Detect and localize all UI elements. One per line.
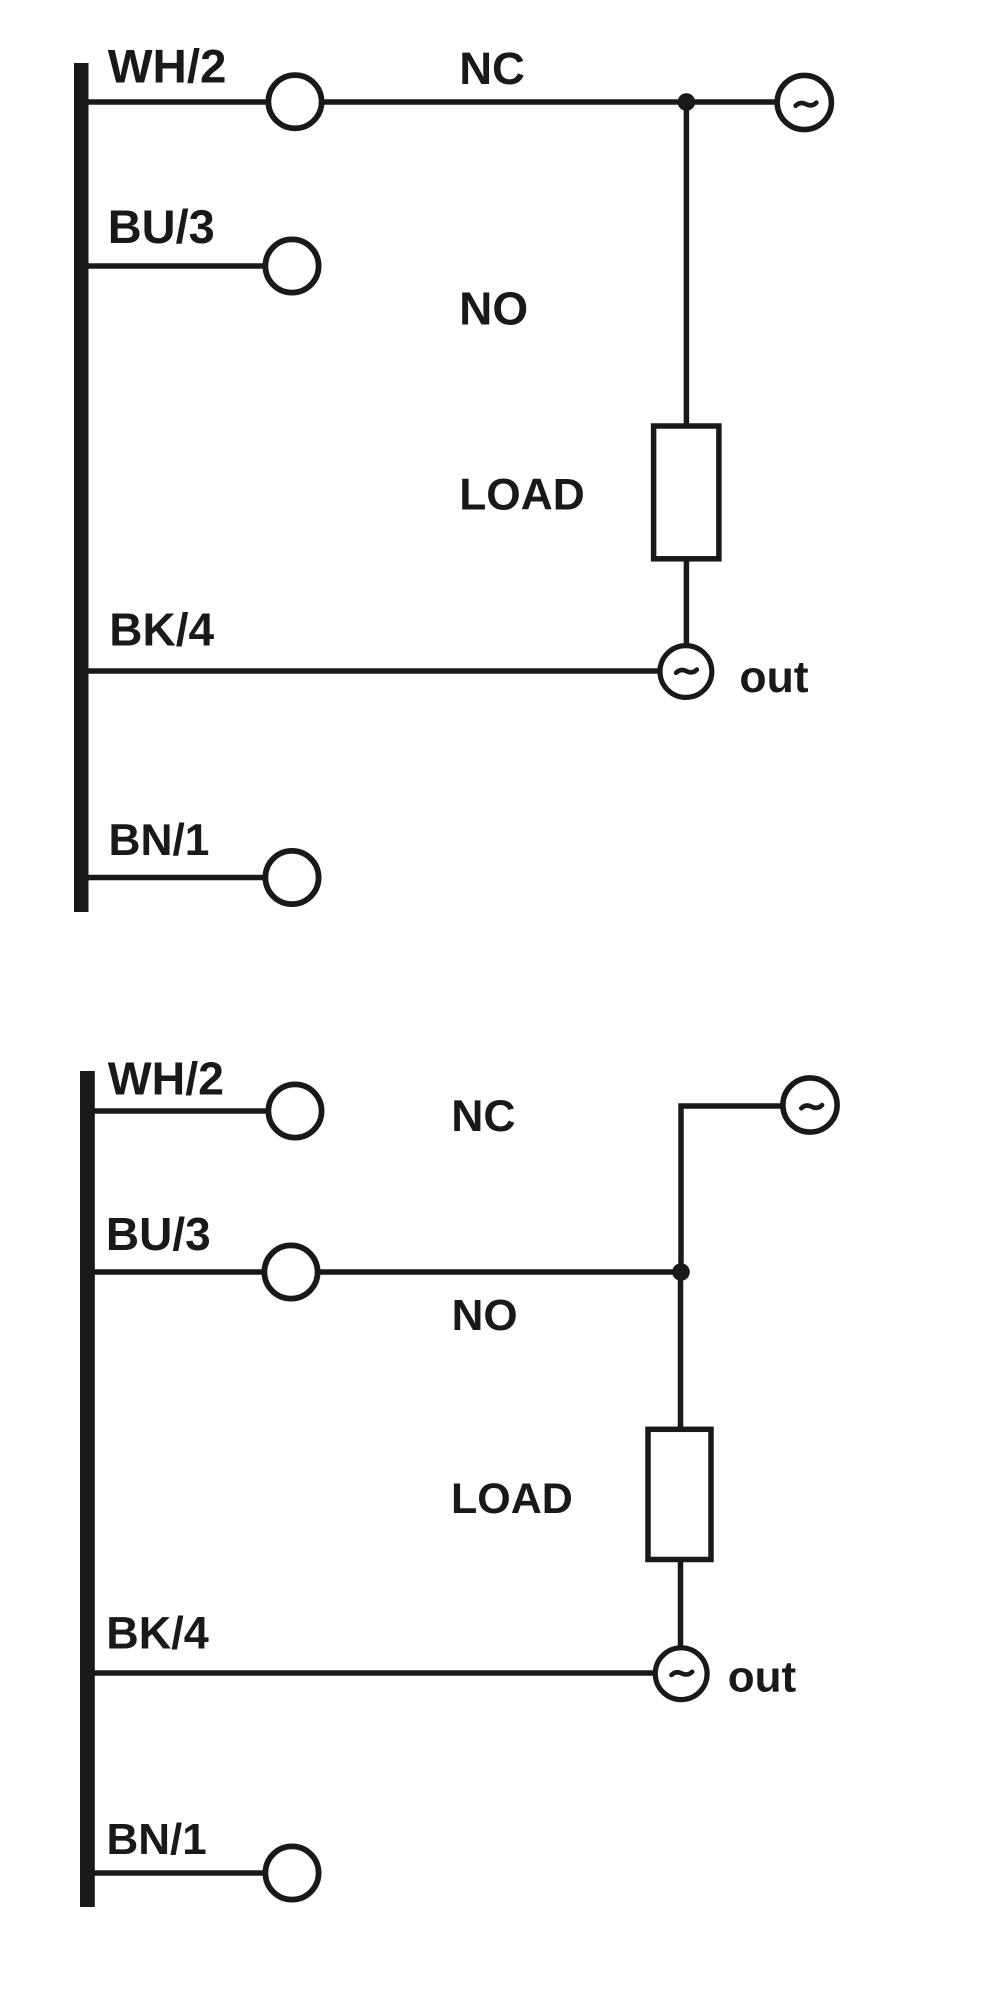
svg-text:out: out: [728, 1653, 797, 1702]
svg-text:BU/3: BU/3: [106, 1208, 211, 1260]
wire NO from terminal to junction (bottom): [318, 1269, 681, 1275]
svg-text:LOAD: LOAD: [459, 470, 585, 519]
svg-text:BN/1: BN/1: [109, 816, 210, 865]
wire BN/1 from bus to terminal (top): [88, 875, 266, 881]
terminal circle BN/1 (bottom): [265, 1846, 318, 1899]
svg-text:NO: NO: [452, 1291, 518, 1340]
bus bar (bottom diagram): [80, 1071, 95, 1907]
svg-text:LOAD: LOAD: [451, 1475, 573, 1523]
terminal circle BN/1 (top): [265, 851, 318, 904]
wire from junction down to load (top): [684, 102, 690, 425]
svg-text:NC: NC: [459, 43, 525, 94]
wire BK/4 from bus to out source (bottom): [94, 1670, 655, 1676]
bus bar (top diagram): [74, 63, 89, 912]
terminal circle WH/2 (bottom): [268, 1084, 321, 1137]
wire WH/2 from bus to terminal (bottom): [94, 1108, 269, 1114]
terminal circle BU/3 (bottom): [264, 1245, 317, 1298]
wire BN/1 from bus to terminal (bottom): [94, 1870, 266, 1876]
svg-text:NO: NO: [459, 283, 528, 335]
junction node (top): [678, 93, 696, 111]
load resistor box (bottom): [648, 1429, 711, 1559]
wire corner from junction up and right to AC source (bottom): [681, 1106, 781, 1272]
AC source symbol out (bottom): [655, 1648, 707, 1700]
wire BU/3 from bus to terminal (bottom): [94, 1269, 265, 1275]
wire from load to out source (bottom): [678, 1559, 684, 1648]
AC source symbol (bottom right): [783, 1078, 837, 1132]
svg-text:out: out: [739, 653, 808, 702]
AC source symbol (top right): [777, 75, 831, 129]
svg-text:BN/1: BN/1: [107, 1815, 207, 1864]
terminal circle BU/3 (top): [265, 239, 318, 292]
svg-text:WH/2: WH/2: [108, 1053, 224, 1105]
load resistor box (top): [654, 426, 719, 559]
junction node (bottom): [672, 1263, 690, 1281]
svg-text:BU/3: BU/3: [108, 200, 215, 253]
wire NC from terminal to AC source (top): [323, 99, 776, 105]
svg-text:BK/4: BK/4: [109, 604, 214, 656]
wire BU/3 from bus to terminal (top): [88, 263, 266, 269]
wire WH/2 from bus to terminal (top): [88, 99, 270, 105]
wire from load to out source (top): [684, 559, 690, 645]
svg-text:NC: NC: [451, 1092, 515, 1141]
svg-text:WH/2: WH/2: [108, 41, 227, 94]
wire from junction down to load (bottom): [678, 1272, 684, 1429]
wire BK/4 from bus to out source (top): [88, 668, 659, 674]
svg-text:BK/4: BK/4: [106, 1608, 209, 1659]
terminal circle WH/2 (top): [268, 75, 321, 128]
AC source symbol out (top): [660, 646, 712, 698]
